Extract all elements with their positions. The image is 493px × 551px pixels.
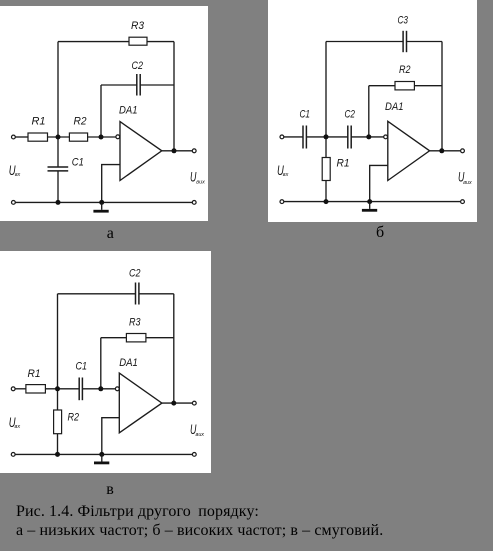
- svg-text:DA1: DA1: [119, 357, 138, 369]
- svg-text:R2: R2: [68, 412, 80, 424]
- wire R3 horizontal: [101, 337, 174, 339]
- label U output: [190, 422, 204, 438]
- wire right vertical feedback: [173, 294, 175, 403]
- wire bottom rail: [16, 201, 193, 203]
- output node junction: [171, 401, 176, 406]
- svg-text:R2: R2: [74, 116, 87, 128]
- wire node A to R2: [57, 389, 59, 410]
- resistor R1: [28, 133, 48, 141]
- R2 ground junction: [55, 452, 60, 457]
- wire C3 right to corner: [407, 41, 443, 43]
- non-inverting ground junction: [99, 452, 104, 457]
- capacitor C1 plates: [79, 378, 82, 401]
- label U input: [9, 163, 21, 178]
- op-amp inverting input circle: [115, 387, 119, 391]
- sub-figure label v: [106, 480, 114, 499]
- svg-text:R1: R1: [32, 116, 46, 128]
- svg-text:вих: вих: [463, 180, 472, 186]
- ground: [94, 454, 109, 464]
- bottom right terminal: [192, 201, 196, 205]
- wire node B up to top wire: [325, 42, 327, 137]
- wire C1 to ground rail: [57, 171, 59, 202]
- svg-text:C2: C2: [345, 109, 356, 121]
- svg-text:DA1: DA1: [385, 101, 404, 113]
- wire right vertical feedback to output: [173, 42, 175, 151]
- output terminal: [192, 149, 196, 153]
- svg-text:вх: вх: [15, 172, 21, 178]
- figure caption: [16, 502, 383, 541]
- ground: [362, 202, 377, 212]
- op-amp DA1 triangle: [120, 122, 162, 181]
- svg-text:C1: C1: [76, 361, 88, 373]
- resistor R3: [129, 37, 147, 45]
- wire node A to C1: [57, 137, 59, 167]
- bottom left terminal: [12, 201, 16, 205]
- wire node B to R1: [325, 137, 327, 158]
- wire R3 branch vertical: [100, 338, 102, 389]
- input terminal: [11, 387, 15, 391]
- svg-text:вх: вх: [283, 172, 289, 178]
- wire C2 to inverting node: [351, 136, 383, 138]
- wire right vertical feedback: [441, 42, 443, 151]
- ground: [93, 202, 108, 212]
- input terminal: [280, 135, 284, 139]
- svg-text:R1: R1: [28, 368, 41, 380]
- label U output: [458, 170, 472, 186]
- wire input to R1: [15, 388, 26, 390]
- inverting node junction: [98, 386, 103, 391]
- panel v background: [0, 251, 211, 473]
- inverting node junction: [366, 134, 371, 139]
- inverting node junction: [99, 135, 104, 140]
- node A junction: [55, 386, 60, 391]
- capacitor C1 plates: [303, 126, 306, 149]
- resistor R1 vertical: [322, 158, 330, 181]
- output node junction: [172, 148, 177, 153]
- capacitor C2 plates: [136, 283, 139, 305]
- resistor R2: [395, 82, 414, 90]
- wire input to C1: [284, 136, 303, 138]
- svg-text:R3: R3: [129, 316, 141, 328]
- svg-text:DA1: DA1: [119, 105, 138, 117]
- capacitor C3 plates: [403, 31, 406, 52]
- capacitor C2 plates: [137, 74, 140, 96]
- capacitor C1 plates: [48, 167, 69, 171]
- wire bottom rail: [15, 453, 192, 455]
- svg-text:R1: R1: [337, 158, 350, 170]
- svg-text:C1: C1: [72, 157, 84, 169]
- bottom left terminal: [280, 200, 284, 204]
- wire bottom rail: [284, 201, 460, 203]
- wire node A up to top wire: [57, 294, 59, 389]
- wire top horizontal C2 feedback: [58, 293, 136, 295]
- op-amp inverting input circle: [116, 135, 120, 139]
- svg-text:C2: C2: [132, 60, 144, 72]
- svg-text:R2: R2: [399, 64, 411, 76]
- wire op-amp output: [162, 150, 192, 152]
- resistor R1: [26, 385, 46, 393]
- output terminal: [192, 401, 196, 405]
- sub-figure label b: [376, 223, 384, 242]
- wire R2 to ground rail: [57, 434, 59, 455]
- wire non-inverting input: [102, 418, 120, 455]
- resistor R3: [126, 334, 145, 342]
- output terminal: [461, 149, 465, 153]
- label U input: [277, 163, 289, 178]
- wire R2 horizontal: [369, 85, 442, 87]
- wire top horizontal R3 feedback: [58, 41, 174, 43]
- wire R2 branch vertical: [368, 86, 370, 137]
- non-inverting ground junction: [99, 200, 104, 205]
- wire node A up to top wire: [57, 42, 59, 137]
- wire C2 right: [140, 84, 174, 86]
- wire R2 to op-amp input: [88, 136, 116, 138]
- svg-text:вих: вих: [196, 432, 205, 438]
- output node junction: [439, 148, 444, 153]
- non-inverting ground junction: [367, 199, 372, 204]
- wire inverting node vertical: [100, 85, 102, 137]
- input terminal: [12, 135, 16, 139]
- wire C2 left: [101, 84, 137, 86]
- wire op-amp output: [162, 402, 192, 404]
- svg-text:C3: C3: [398, 14, 409, 26]
- sub-figure label a: [107, 224, 114, 243]
- wire R1 to C1: [45, 388, 79, 390]
- label U output: [190, 169, 205, 185]
- wire top horizontal C3 feedback: [326, 41, 403, 43]
- panel b background: [268, 0, 477, 222]
- panel a background: [0, 6, 208, 221]
- bottom right terminal: [192, 453, 196, 457]
- wire non-inverting input: [370, 165, 388, 201]
- capacitor C2 plates: [348, 126, 351, 149]
- wire R1 to R2: [48, 136, 70, 138]
- op-amp DA1 triangle: [388, 121, 430, 180]
- label U input: [9, 415, 21, 430]
- bottom right terminal: [461, 200, 465, 204]
- wire R1 to ground rail: [325, 181, 327, 202]
- bottom left terminal: [11, 453, 15, 457]
- svg-text:вх: вх: [15, 424, 21, 430]
- wire C1 to inverting node: [82, 388, 115, 390]
- wire C2 right to corner: [139, 293, 174, 295]
- op-amp inverting input circle: [384, 135, 388, 139]
- op-amp DA1 triangle: [119, 373, 162, 433]
- node A junction: [56, 135, 61, 140]
- wire input to R1: [16, 136, 29, 138]
- svg-text:вих: вих: [196, 180, 205, 186]
- wire op-amp output: [430, 150, 461, 152]
- svg-text:C2: C2: [129, 268, 141, 280]
- svg-text:C1: C1: [300, 109, 311, 121]
- R1 ground junction: [324, 199, 329, 204]
- resistor R2: [69, 133, 87, 141]
- resistor R2 vertical: [54, 410, 62, 434]
- node B junction: [324, 134, 329, 139]
- svg-text:R3: R3: [131, 20, 145, 32]
- wire non-inverting input: [102, 165, 120, 203]
- C1 ground junction: [56, 200, 61, 205]
- wire C1 to node B: [306, 136, 347, 138]
